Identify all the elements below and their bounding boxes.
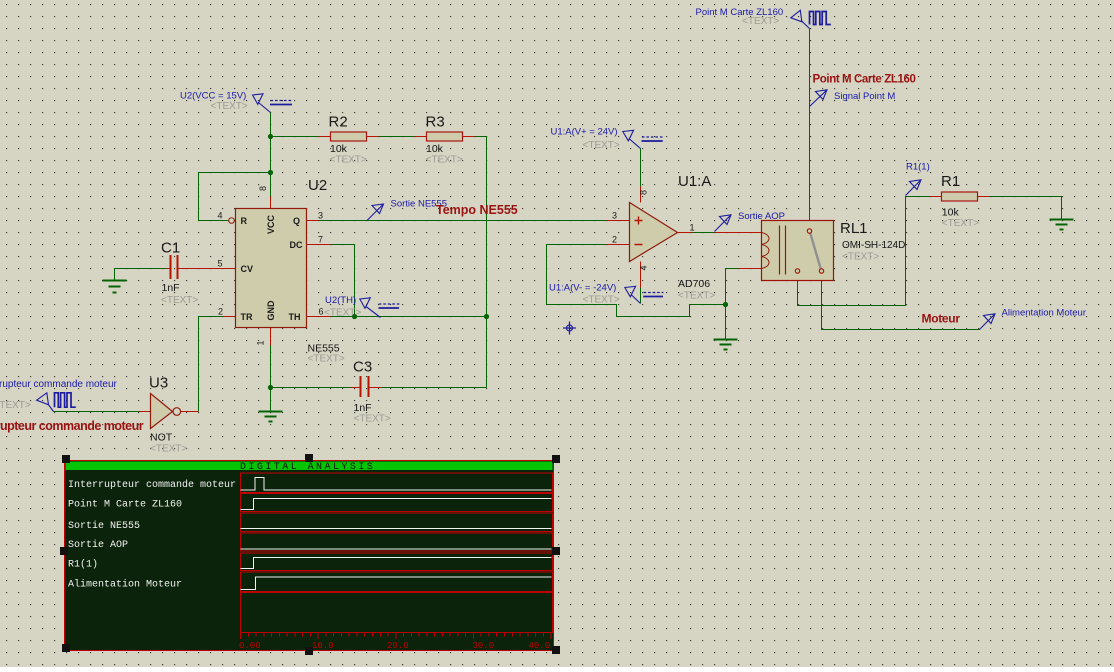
pin opamp 2 stub	[607, 244, 630, 246]
svg-text:Sortie AOP: Sortie AOP	[68, 539, 128, 551]
wire TH pin6	[331, 316, 487, 318]
pin opamp 8 stub	[640, 187, 642, 203]
wire GND pin1 down	[270, 346, 272, 388]
svg-text:3: 3	[612, 211, 617, 221]
svg-text:<TEXT>: <TEXT>	[354, 414, 391, 425]
svg-text:8: 8	[639, 190, 649, 195]
power terminal U1:A(V+)	[623, 130, 663, 148]
pin opamp 4 stub	[640, 262, 642, 288]
wire junction to ground	[725, 305, 727, 340]
svg-text:OMI-SH-124D: OMI-SH-124D	[842, 240, 905, 251]
svg-text:<TEXT>: <TEXT>	[150, 444, 187, 455]
pin opamp output stub	[678, 232, 693, 234]
probe Alimentation Moteur	[980, 314, 996, 330]
wire relay contact to motor terminal	[822, 292, 980, 330]
text placeholder TEXT labels	[0, 16, 979, 455]
ground NE555	[259, 412, 283, 422]
svg-text:<TEXT>: <TEXT>	[583, 140, 620, 151]
probe R1(1)	[906, 180, 922, 196]
wire reset loop	[199, 173, 271, 221]
svg-text:C1: C1	[161, 240, 180, 257]
pin U2 VCC stub	[270, 197, 272, 209]
svg-text:TR: TR	[241, 312, 253, 322]
node opamp gnd junction	[723, 302, 728, 307]
svg-text:Interrupteur commande moteur: Interrupteur commande moteur	[68, 479, 236, 491]
wire pin4 to V- node	[640, 288, 642, 304]
power terminal U2(VCC)	[253, 94, 293, 113]
svg-text:R1(1): R1(1)	[68, 559, 98, 571]
wire CV to C1	[115, 269, 167, 281]
svg-text:3: 3	[318, 211, 323, 221]
clock terminal Point M Carte ZL160	[791, 10, 831, 28]
node VCC junction	[268, 134, 273, 139]
pin C1 left lead	[167, 268, 171, 270]
ground C1	[103, 281, 127, 293]
svg-text:Moteur: Moteur	[922, 312, 961, 326]
wire trace R1(1)	[241, 558, 552, 569]
pin C3 leads	[351, 387, 382, 389]
svg-text:8: 8	[258, 186, 268, 191]
wire R2 to R3	[379, 136, 415, 138]
text pin numbers	[218, 186, 695, 346]
wire clock terminal to relay top	[809, 29, 811, 209]
op-amp U1:A	[630, 203, 678, 262]
wire DC pin7	[331, 245, 355, 317]
power terminal U1:A(V-)	[625, 286, 664, 303]
svg-text:4: 4	[218, 211, 223, 221]
probe Sortie NE555	[367, 204, 384, 221]
svg-text:<TEXT>: <TEXT>	[426, 155, 463, 166]
wire R1 right to ground	[990, 197, 1062, 220]
svg-text:U2: U2	[308, 177, 327, 194]
svg-text:Alimentation Moteur: Alimentation Moteur	[1002, 308, 1086, 319]
svg-text:TH: TH	[289, 312, 301, 322]
svg-text:<TEXT>: <TEXT>	[842, 252, 879, 263]
svg-text:C3: C3	[353, 359, 372, 376]
text component refs	[149, 114, 960, 392]
ground op-amp	[714, 340, 738, 350]
svg-text:10k: 10k	[942, 207, 960, 219]
pin U2 TR stub	[224, 316, 236, 318]
svg-text:U3: U3	[149, 375, 168, 392]
svg-text:DC: DC	[290, 240, 303, 250]
svg-text:VCC: VCC	[266, 215, 276, 235]
relay RL1	[762, 221, 834, 281]
digital analysis window	[65, 461, 554, 651]
svg-text:<TEXT>: <TEXT>	[211, 101, 248, 112]
wire op-amp pin2 loop	[547, 245, 726, 317]
pin R3 leads	[415, 136, 475, 138]
svg-text:U1:A(V+ = 24V): U1:A(V+ = 24V)	[551, 127, 618, 138]
wire trace Interrupteur commande moteur	[241, 478, 552, 491]
op-amp U1 inversion bubble on U2 pin4	[229, 218, 235, 224]
svg-text:Point M Carte ZL160: Point M Carte ZL160	[68, 499, 182, 511]
svg-text:R: R	[241, 216, 248, 226]
svg-text:Point M Carte ZL160: Point M Carte ZL160	[813, 74, 916, 86]
svg-text:<TEXT>: <TEXT>	[678, 291, 715, 302]
wire VCC node down	[270, 137, 272, 197]
text blue net labels	[0, 7, 1086, 390]
svg-text:Signal Point M: Signal Point M	[834, 91, 895, 102]
pin NOT input stub	[140, 411, 151, 413]
svg-text:4: 4	[639, 265, 649, 270]
svg-text:1: 1	[690, 223, 695, 233]
pin opamp 3 stub	[607, 220, 630, 222]
op-amp U2 NE555 body	[236, 209, 307, 328]
svg-text:Interrupteur commande moteur: Interrupteur commande moteur	[0, 419, 144, 433]
pin U2 DC stub	[307, 244, 331, 246]
svg-text:Alimentation Moteur: Alimentation Moteur	[68, 579, 182, 591]
wire vertical R3 to C3 node	[486, 137, 488, 388]
trace row frames	[241, 473, 553, 633]
svg-text:10k: 10k	[426, 143, 444, 155]
pin relay coil top lead	[715, 232, 762, 234]
svg-text:<TEXT>: <TEXT>	[324, 308, 361, 319]
trace labels	[68, 479, 236, 591]
pin R1 leads	[930, 196, 990, 198]
pin U2 TH stub	[307, 316, 331, 318]
svg-text:DIGITAL ANALYSIS: DIGITAL ANALYSIS	[240, 462, 375, 473]
node TH-bus junction	[484, 314, 489, 319]
svg-text:U1:A: U1:A	[678, 173, 711, 190]
svg-text:R2: R2	[329, 114, 348, 131]
pin U2 CV stub	[178, 268, 236, 270]
svg-text:U1:A(V- = -24V): U1:A(V- = -24V)	[549, 283, 616, 294]
pin relay NC stub	[797, 274, 799, 292]
svg-text:GND: GND	[266, 300, 276, 321]
power terminal U2(TH)	[360, 298, 400, 318]
text U2 pin names	[241, 215, 303, 322]
svg-text:RL1: RL1	[840, 220, 868, 237]
svg-text:1nF: 1nF	[162, 282, 180, 294]
text component values	[150, 143, 959, 444]
svg-text:Sortie NE555: Sortie NE555	[68, 520, 140, 532]
svg-text:10.0: 10.0	[312, 641, 334, 651]
wire Q output	[319, 220, 607, 222]
svg-text:<TEXT>: <TEXT>	[942, 218, 979, 229]
trace signals	[241, 478, 552, 590]
svg-text:Tempo NE555: Tempo NE555	[436, 203, 518, 217]
pin relay common stub	[809, 209, 811, 229]
svg-text:6: 6	[319, 307, 324, 317]
wire power to VCC node	[270, 113, 272, 137]
pin NOT output stub	[181, 411, 199, 413]
resistor R2	[331, 132, 367, 141]
ground R1	[1050, 220, 1074, 230]
pin U2 GND stub	[270, 328, 272, 346]
axis minor ticks	[248, 633, 543, 637]
svg-text:<TEXT>: <TEXT>	[308, 354, 345, 365]
axis ticks	[241, 633, 552, 639]
svg-text:U2(TH): U2(TH)	[325, 295, 356, 306]
svg-text:AD706: AD706	[678, 278, 710, 290]
svg-text:20.0: 20.0	[387, 641, 409, 651]
svg-text:CV: CV	[241, 264, 254, 274]
svg-text:1nF: 1nF	[354, 402, 372, 414]
wire trace Alimentation Moteur	[241, 577, 552, 590]
node origin marker	[563, 322, 576, 335]
svg-text:R3: R3	[426, 114, 445, 131]
probe Sortie AOP	[715, 215, 732, 232]
svg-text:2: 2	[612, 235, 617, 245]
svg-text:Interrupteur commande moteur: Interrupteur commande moteur	[0, 379, 118, 390]
resistor R3	[427, 132, 463, 141]
capacitor C3	[361, 376, 369, 397]
wire R3 to vertical bus	[475, 136, 487, 138]
resistor R1	[942, 192, 978, 201]
svg-text:<TEXT>: <TEXT>	[0, 400, 31, 411]
wire V+ terminal to pin8	[640, 149, 642, 187]
wire NOT input	[54, 411, 140, 413]
svg-text:<TEXT>: <TEXT>	[330, 155, 367, 166]
selection handles	[60, 454, 560, 655]
node reset branch junction	[268, 170, 273, 175]
svg-text:40.0: 40.0	[529, 641, 551, 651]
wire gnd node to C3	[271, 387, 351, 389]
node GND-C3 junction	[268, 385, 273, 390]
svg-text:1: 1	[256, 340, 266, 345]
pin R2 leads	[319, 136, 379, 138]
svg-text:R1(1): R1(1)	[906, 162, 930, 173]
wire relay contact to R1	[798, 197, 930, 306]
svg-text:Sortie AOP: Sortie AOP	[738, 211, 785, 222]
wire TR to NOT output	[199, 317, 224, 412]
svg-text:Point M Carte ZL160: Point M Carte ZL160	[696, 7, 784, 18]
pin relay coil bottom lead	[739, 268, 762, 270]
transistor U3 NOT gate	[151, 394, 181, 429]
svg-text:R1: R1	[941, 173, 960, 190]
svg-text:<TEXT>: <TEXT>	[583, 295, 620, 306]
node DC-TH junction	[352, 314, 357, 319]
svg-text:U2(VCC = 15V): U2(VCC = 15V)	[180, 91, 246, 102]
svg-text:Q: Q	[293, 216, 300, 226]
capacitor C1	[171, 255, 178, 279]
svg-text:NOT: NOT	[150, 432, 173, 444]
svg-text:10k: 10k	[330, 143, 348, 155]
clock terminal Interrupteur commande moteur	[37, 393, 76, 412]
wire op-amp output	[693, 232, 715, 234]
wire gnd node to ground	[270, 388, 272, 412]
axis labels	[239, 641, 550, 651]
probe Signal Point M	[810, 90, 828, 107]
svg-text:5: 5	[218, 259, 223, 269]
wire trace Sortie NE555	[241, 528, 552, 530]
svg-text:2: 2	[218, 307, 223, 317]
svg-text:30.0: 30.0	[473, 641, 495, 651]
svg-text:0.00: 0.00	[239, 641, 261, 651]
wire trace Sortie AOP	[241, 548, 552, 550]
wire C3 to vertical bus	[382, 387, 487, 389]
pin relay NO stub	[821, 274, 823, 292]
text dark red annotations	[0, 74, 960, 434]
svg-text:<TEXT>: <TEXT>	[161, 295, 198, 306]
wire VCC node to R2	[271, 136, 319, 138]
svg-text:7: 7	[318, 235, 323, 245]
pin U2 Q stub	[307, 220, 319, 222]
wire coil bottom loop	[726, 269, 739, 305]
wire trace Point M Carte ZL160	[241, 499, 552, 510]
